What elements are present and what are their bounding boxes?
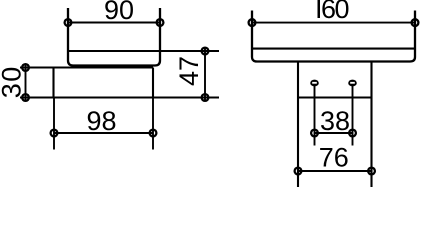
- circle endpoint 98 right: [150, 130, 157, 137]
- dimension line 47 vertical: [204, 48, 206, 102]
- svg-text:98: 98: [86, 106, 116, 136]
- dimension line 98: [54, 132, 153, 134]
- bracket bottom edge front view: [298, 96, 372, 98]
- dimension line 90: [68, 22, 160, 24]
- svg-text:38: 38: [320, 106, 350, 136]
- dimension line 76: [298, 170, 372, 172]
- extension line 98 right: [152, 98, 154, 150]
- screw left head: [310, 80, 319, 87]
- circle endpoint 30 top: [22, 64, 29, 71]
- dimension line 38: [315, 132, 353, 134]
- circle endpoint 47 bottom: [202, 94, 209, 101]
- circle endpoint 76 right: [368, 168, 375, 175]
- circle endpoint 90 left: [65, 19, 72, 26]
- circle endpoint 98 left: [51, 130, 58, 137]
- screw left stem / 38-dim extension: [314, 86, 316, 146]
- wall plate left edge: [52, 68, 54, 98]
- dish body side view (left wall, bottom, right wall): [68, 8, 160, 66]
- dish body front view (left wall, bottom, right wall): [252, 11, 415, 62]
- circle endpoint 38 right: [349, 130, 356, 137]
- circle endpoint 47 top: [202, 48, 209, 55]
- wall plate right edge: [152, 68, 154, 98]
- bottom reference line (plate bottom) extended both sides: [20, 96, 219, 98]
- wall plate top line with left extension to 30-dim: [20, 66, 153, 68]
- screw right head: [348, 80, 357, 87]
- circle endpoint 38 left: [311, 130, 318, 137]
- circle endpoint 90 right: [157, 19, 164, 26]
- dish inner rim line extended right as 47-dim top reference: [68, 50, 219, 52]
- dimension line 160: [252, 22, 415, 24]
- bracket left edge extended down as 76-dim extension: [297, 62, 299, 188]
- bracket right edge extended down as 76-dim extension: [370, 62, 372, 188]
- dimension line 30 vertical: [25, 64, 27, 101]
- svg-text:I60: I60: [315, 0, 349, 24]
- svg-text:30: 30: [0, 65, 27, 98]
- svg-text:76: 76: [319, 143, 349, 173]
- screw right stem / 38-dim extension: [352, 86, 354, 146]
- svg-text:47: 47: [174, 56, 204, 86]
- svg-text:90: 90: [104, 0, 134, 25]
- circle endpoint 160 right: [412, 19, 419, 26]
- extension line 98 left: [53, 98, 55, 150]
- circle endpoint 76 left: [295, 168, 302, 175]
- circle endpoint 160 left: [249, 19, 256, 26]
- dish belly line front view: [252, 48, 415, 50]
- circle endpoint 30 bottom: [22, 94, 29, 101]
